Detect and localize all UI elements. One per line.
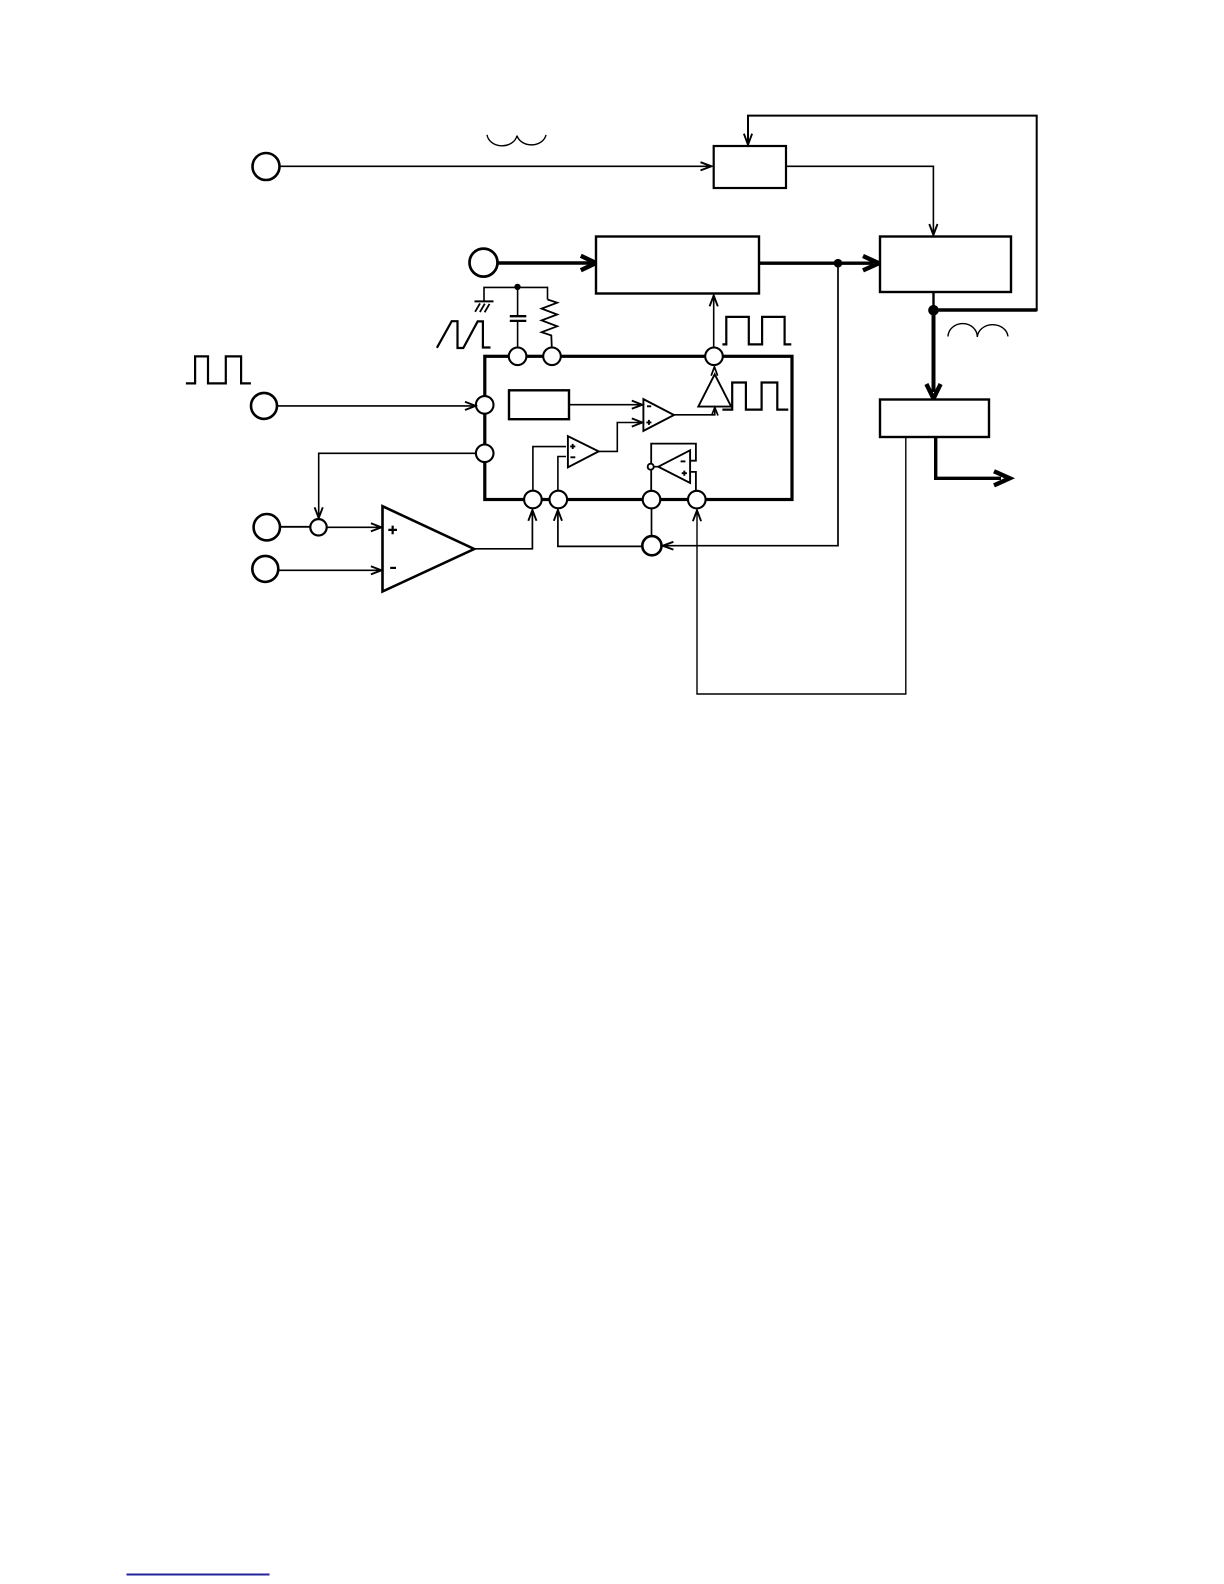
C3 minus label bbox=[681, 460, 686, 462]
thick wire T2 to B2 bbox=[498, 261, 591, 264]
wire feedback vertical and top run bbox=[748, 116, 1037, 312]
arrowhead into block B1 left bbox=[701, 162, 712, 170]
arrowhead into B1 top bbox=[744, 134, 752, 145]
wire S1 to op-amp plus input bbox=[327, 526, 380, 528]
resistor R bbox=[542, 300, 558, 348]
thick wire B2 to B3 bbox=[759, 262, 873, 265]
arrowhead into P4 bbox=[465, 402, 476, 410]
arrowhead into S1 bbox=[315, 507, 323, 518]
buffer triangle (points up) bbox=[698, 374, 731, 406]
arrowhead into P7 bbox=[554, 510, 562, 521]
wire P6 up to C2 plus input bbox=[533, 447, 566, 491]
wire B3 bottom to junction dot bbox=[932, 292, 934, 310]
arrowhead into op-amp minus bbox=[371, 566, 382, 574]
ground symbol bbox=[475, 300, 494, 302]
op-amp OA1 bbox=[383, 506, 475, 591]
pin P8 bbox=[643, 491, 661, 509]
pin P1 bbox=[509, 348, 527, 366]
C2 plus label bbox=[570, 444, 575, 449]
wire T4 to S1 bbox=[280, 526, 310, 528]
wire J1 left and up to P7 bbox=[558, 512, 642, 547]
wire bubble to C3 tip bbox=[654, 466, 659, 468]
junction dot on RC wire bbox=[514, 284, 520, 290]
wire OA1 output up to P6 bbox=[474, 512, 532, 549]
OA1 plus label bbox=[388, 526, 397, 535]
block B4 bbox=[880, 400, 989, 438]
block B3 bbox=[880, 237, 1011, 293]
thick output wire from B4 bottom to the right bbox=[936, 437, 1001, 478]
annotation arcs (erased label) right of thick wire bbox=[948, 324, 1008, 337]
comparator C2 bbox=[568, 436, 599, 467]
terminal T4 bbox=[254, 514, 280, 540]
wire C1 output to buffer bbox=[674, 408, 715, 415]
junction dot on B2-B3 wire bbox=[834, 259, 843, 268]
wire P8 down to J1 bbox=[651, 508, 653, 536]
pin P2 bbox=[543, 348, 561, 366]
C3 plus label bbox=[682, 471, 687, 476]
C2 minus label bbox=[570, 456, 575, 458]
terminal T3 bbox=[251, 393, 277, 419]
junction circle J1 bbox=[642, 536, 661, 555]
arrowhead into op-amp plus bbox=[371, 523, 382, 531]
pin P3 bbox=[705, 348, 723, 366]
wire T5 to op-amp minus input bbox=[279, 569, 380, 571]
C3 feedback wire output to minus input bbox=[651, 444, 696, 464]
arrowhead into C1 plus bbox=[632, 418, 643, 426]
thick arrowhead output bbox=[994, 471, 1010, 485]
arrowhead into P9 bbox=[693, 510, 701, 521]
pin P9 bbox=[688, 491, 706, 509]
wire P5 left and down to node S1 bbox=[319, 453, 476, 516]
feedback wire from junction below B3 up and over to B1 top bbox=[934, 308, 1037, 311]
pin P5 bbox=[476, 445, 494, 463]
block B2 bbox=[596, 237, 759, 294]
wire B1 output to B3 top bbox=[786, 166, 933, 234]
wire P7 up to C2 minus input bbox=[558, 457, 566, 491]
IC block outline bbox=[485, 356, 792, 499]
sawtooth waveform W2 bbox=[437, 321, 491, 348]
pin P7 bbox=[550, 491, 568, 509]
wire P3 up to B2 bottom bbox=[713, 297, 715, 348]
wire from B2-B3 junction dot down and left into J1 bbox=[664, 265, 838, 546]
block B5 (inside IC) bbox=[509, 390, 569, 419]
C1 plus label bbox=[646, 420, 651, 425]
C3 output bubble bbox=[648, 464, 654, 470]
wire B4 bottom long path to P9 bbox=[697, 436, 906, 694]
junction dot below B3 bbox=[928, 305, 939, 316]
arrowhead into J1 right side bbox=[663, 542, 674, 550]
terminal T1 bbox=[253, 153, 280, 180]
thick wire junction dot down to B4 bbox=[932, 310, 936, 392]
square wave W1 (top left input waveform) bbox=[186, 356, 251, 383]
arrowhead buffer apex to P3 bbox=[711, 367, 717, 376]
OA1 minus label bbox=[390, 567, 396, 569]
capacitor C bbox=[517, 289, 519, 316]
arrowhead into C1 minus bbox=[632, 401, 643, 409]
C1 minus label bbox=[647, 405, 651, 407]
arrowhead into buffer base bbox=[712, 407, 718, 415]
annotation arcs (erased label) above wire bbox=[487, 135, 546, 146]
C3 plus input wire down to P9 bbox=[691, 472, 696, 491]
node S1 bbox=[310, 519, 326, 535]
square wave W3 (above IC, right) bbox=[722, 317, 791, 345]
blue rule bottom left bbox=[127, 1574, 270, 1576]
comparator C3 (points left, inverting) bbox=[658, 450, 690, 483]
thick arrowhead into B2 bbox=[581, 256, 596, 270]
arrowhead into P6 bbox=[528, 510, 536, 521]
wire B5 to C1 minus input bbox=[569, 404, 641, 406]
comparator C1 bbox=[643, 399, 674, 431]
RC top wire bbox=[484, 287, 548, 300]
thick arrowhead into B4 top bbox=[926, 384, 940, 399]
terminal T2 bbox=[470, 249, 498, 277]
thick arrowhead into B3 bbox=[863, 256, 879, 270]
wire T1 to block B1 bbox=[280, 165, 710, 167]
wire bubble down to P8 bbox=[650, 470, 652, 491]
wire C2 output to C1 plus input bbox=[599, 423, 641, 452]
pin P4 bbox=[476, 396, 494, 414]
pin P6 bbox=[524, 491, 542, 509]
block B1 bbox=[714, 146, 786, 188]
terminal T5 bbox=[252, 556, 278, 582]
arrowhead into B3 top bbox=[929, 224, 937, 235]
arrowhead into B2 bottom bbox=[710, 295, 718, 306]
square wave W4 (inside IC, right) bbox=[722, 383, 788, 410]
wire T3 to P4 bbox=[277, 405, 473, 407]
